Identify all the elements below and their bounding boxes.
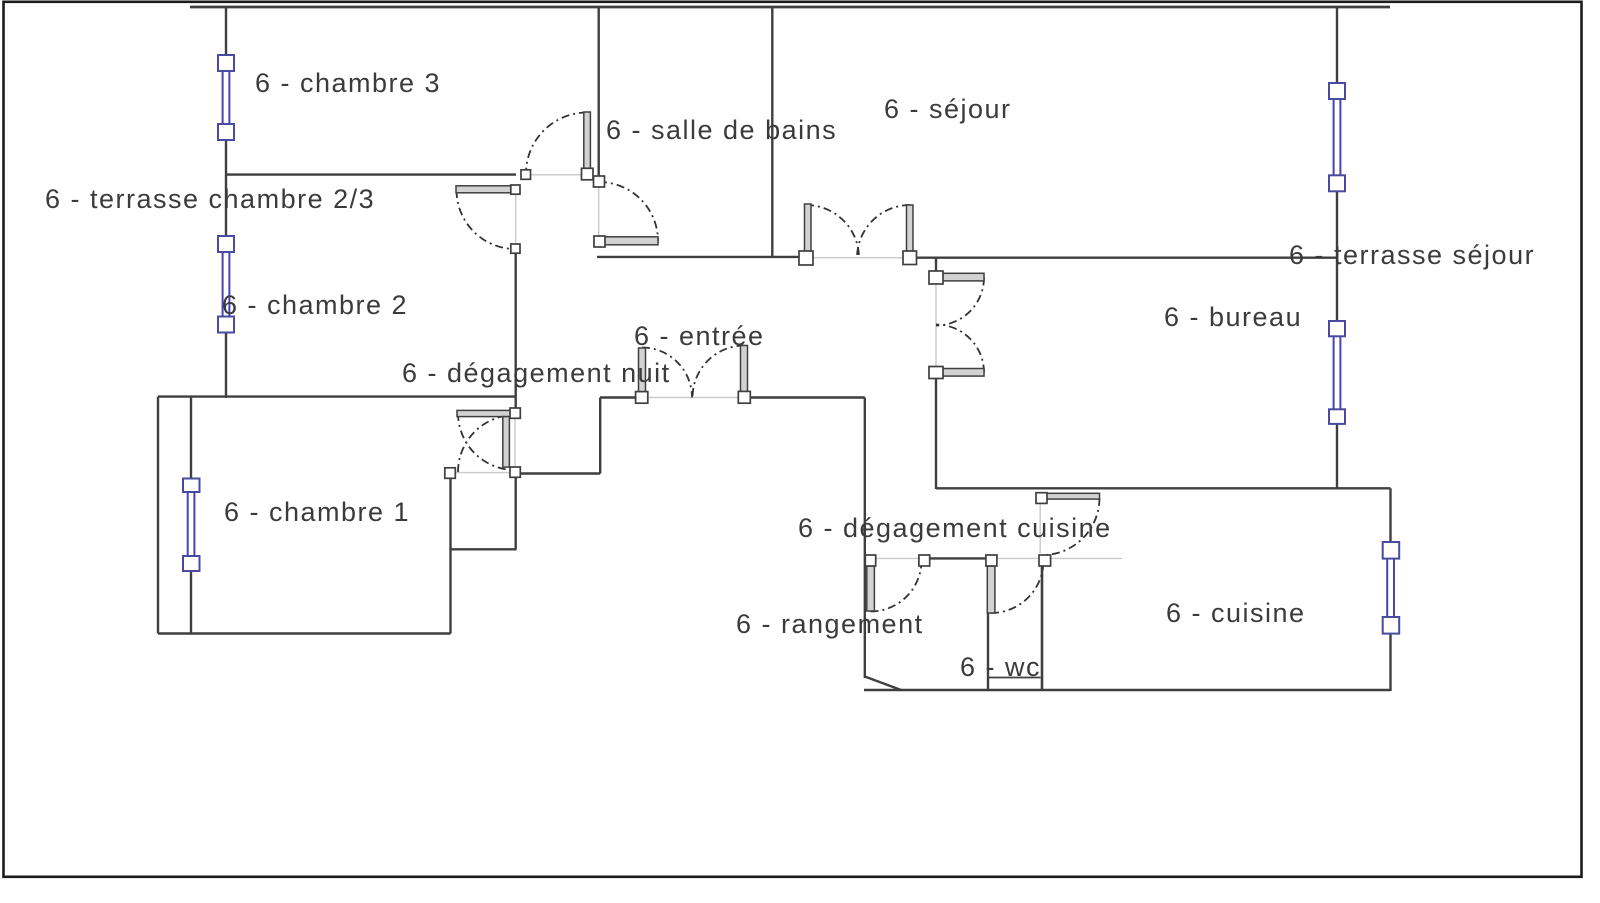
wall closet bottom (451, 548, 517, 550)
wall chambre1 bottom (158, 632, 451, 634)
wall chambre1 right (449, 478, 451, 634)
wall terrasse sejour lower (1336, 424, 1338, 490)
svg-text:6 - chambre 1: 6 - chambre 1 (224, 497, 410, 527)
wall closet right (515, 477, 517, 549)
wall terrasse chambre 2/3 horizontal (226, 173, 516, 175)
opening line chambre1 door horizontal (456, 472, 510, 474)
wall bureau left lower (935, 378, 937, 490)
hinge square chambre1 top (510, 408, 520, 418)
svg-text:6 - chambre 3: 6 - chambre 3 (255, 68, 441, 98)
wall chambre1 inner left lower (190, 571, 192, 634)
door leaf entree right (741, 346, 748, 393)
door swing arc bureau top (936, 278, 984, 326)
opening line chambre1 door vertical (514, 418, 516, 467)
wall between rangement and wc doors (929, 557, 987, 559)
door leaf bureau bottom (942, 369, 984, 377)
svg-text:6 - dégagement cuisine: 6 - dégagement cuisine (798, 513, 1112, 543)
opening line degagement cuisine right (1050, 557, 1122, 559)
wall terrasse sejour middle (1336, 191, 1338, 323)
svg-text:6 - séjour: 6 - séjour (884, 94, 1012, 124)
hinge square cuisine door (1036, 493, 1047, 504)
door swing arc sejour right (857, 205, 910, 258)
door swing arc entree left (642, 348, 692, 398)
door swing arc bureau bottom (936, 325, 984, 373)
door swing arc cuisine (1042, 498, 1100, 555)
hinge square salle de bains wall base (594, 176, 605, 187)
wall wc left below door (987, 613, 989, 690)
hinge square salle de bains inner (594, 236, 605, 247)
door swing arc salle de bains inner (599, 182, 658, 241)
door leaf sejour left (805, 204, 812, 252)
hinge square sejour left (799, 251, 813, 265)
door leaf salle de bains corridor (584, 112, 591, 169)
opening line wc door (996, 557, 1039, 559)
door swing arc sejour left (806, 205, 859, 258)
wall sejour bottom right of door (916, 257, 1338, 259)
wall chamfer corner (865, 677, 901, 691)
wall entree left segment (600, 396, 636, 398)
opening line bureau double door (935, 283, 937, 368)
wall entree right segment (750, 396, 865, 398)
window chambre3 (218, 55, 234, 140)
hinge square cuisine arc end / wc arc end (1039, 555, 1051, 566)
window terrasse sejour upper (1329, 83, 1345, 191)
wall bureau left stub (935, 258, 937, 272)
hinge square terrasse chambre arc end (511, 244, 520, 253)
wall left facade below chambre2 window (225, 332, 227, 398)
hinge square bureau top (929, 271, 943, 284)
svg-text:6 - bureau: 6 - bureau (1164, 302, 1302, 332)
hinge square wall end top (521, 170, 531, 180)
door swing arc rangement (871, 561, 922, 612)
wall terrasse sejour upper (1336, 7, 1338, 84)
door swing arc wc (991, 561, 1044, 614)
svg-text:6 - cuisine: 6 - cuisine (1166, 598, 1306, 628)
opening line terrasse chambre door top (530, 174, 582, 176)
wall chambre1 outer left (157, 397, 159, 634)
door leaf cuisine (1047, 493, 1100, 499)
door leaf entree left (639, 348, 646, 392)
wall chambre1 top (158, 395, 517, 397)
hinge square rangement arc end (919, 555, 930, 566)
hinge square bureau bottom (929, 367, 943, 379)
wall chambre1 inner left upper (190, 397, 192, 479)
door swing arc entree right (693, 346, 745, 398)
wall closet top (516, 472, 601, 474)
door leaf rangement (867, 566, 875, 611)
hinge square entree left (636, 392, 648, 404)
hinge square salle de bains corridor (582, 168, 594, 180)
wall bureau/cuisine top (936, 487, 1391, 489)
wall degagement nuit right vertical (599, 398, 601, 474)
wall cuisine bottom (864, 689, 1391, 691)
window cuisine (1383, 542, 1400, 634)
hinge square chambre1 bottom (510, 467, 520, 477)
wall rangement left (864, 398, 866, 679)
wall sejour left (771, 7, 773, 257)
hinge square sejour right (903, 251, 917, 265)
door leaf chambre1 vertical (503, 417, 510, 468)
hinge square terrasse chambre door (511, 185, 520, 194)
wall left facade between windows (225, 140, 227, 237)
svg-text:6 - entrée: 6 - entrée (634, 321, 765, 351)
svg-text:6 - dégagement nuit: 6 - dégagement nuit (402, 358, 671, 388)
svg-text:6 - salle de bains: 6 - salle de bains (606, 115, 837, 145)
svg-text:6 - chambre 2: 6 - chambre 2 (222, 290, 408, 320)
opening line sejour double door (812, 257, 904, 259)
wall degagement nuit vertical x=516 (515, 253, 517, 410)
svg-text:6 - rangement: 6 - rangement (736, 609, 924, 639)
wall wc right (1041, 563, 1044, 690)
svg-text:6 - wc: 6 - wc (960, 652, 1041, 682)
hinge square entree right (738, 391, 750, 403)
window chambre2 (218, 236, 234, 333)
door leaf sejour right (907, 205, 914, 252)
svg-text:6 - terrasse séjour: 6 - terrasse séjour (1289, 240, 1535, 270)
hinge square chambre1 left (445, 468, 456, 479)
wall top facade (190, 6, 1390, 9)
door leaf terrasse chambre (456, 186, 514, 193)
door swing arc chambre1 a (458, 413, 515, 470)
door leaf bureau top (942, 273, 984, 281)
hinge square rangement door (865, 555, 875, 566)
wc fixture line (988, 677, 1041, 679)
wall left facade upper (above chambre3 window) (225, 7, 227, 56)
svg-text:6 - terrasse chambre 2/3: 6 - terrasse chambre 2/3 (45, 184, 375, 214)
door leaf wc (987, 566, 995, 613)
opening line salle de bains door (598, 187, 600, 237)
window terrasse sejour lower (1329, 321, 1345, 424)
opening line cuisine door closed position (1039, 503, 1041, 553)
door swing arc chambre1 b (458, 415, 515, 472)
wall cuisine right upper (1389, 488, 1391, 543)
wall salle de bains bottom (597, 256, 800, 258)
door leaf salle de bains inner (602, 237, 658, 245)
opening line rangement door (875, 557, 920, 559)
door swing arc salle de bains corridor (526, 113, 587, 175)
door leaf chambre1 horizontal (457, 410, 512, 416)
opening line entree double door (647, 397, 739, 399)
window chambre1 (183, 479, 200, 572)
opening line terrasse chambre door side (515, 194, 517, 244)
door swing arc terrasse chambre (457, 190, 516, 249)
wall cuisine right lower (1389, 634, 1391, 692)
hinge square wc door (986, 555, 997, 566)
wall salle de bains left (598, 7, 600, 176)
